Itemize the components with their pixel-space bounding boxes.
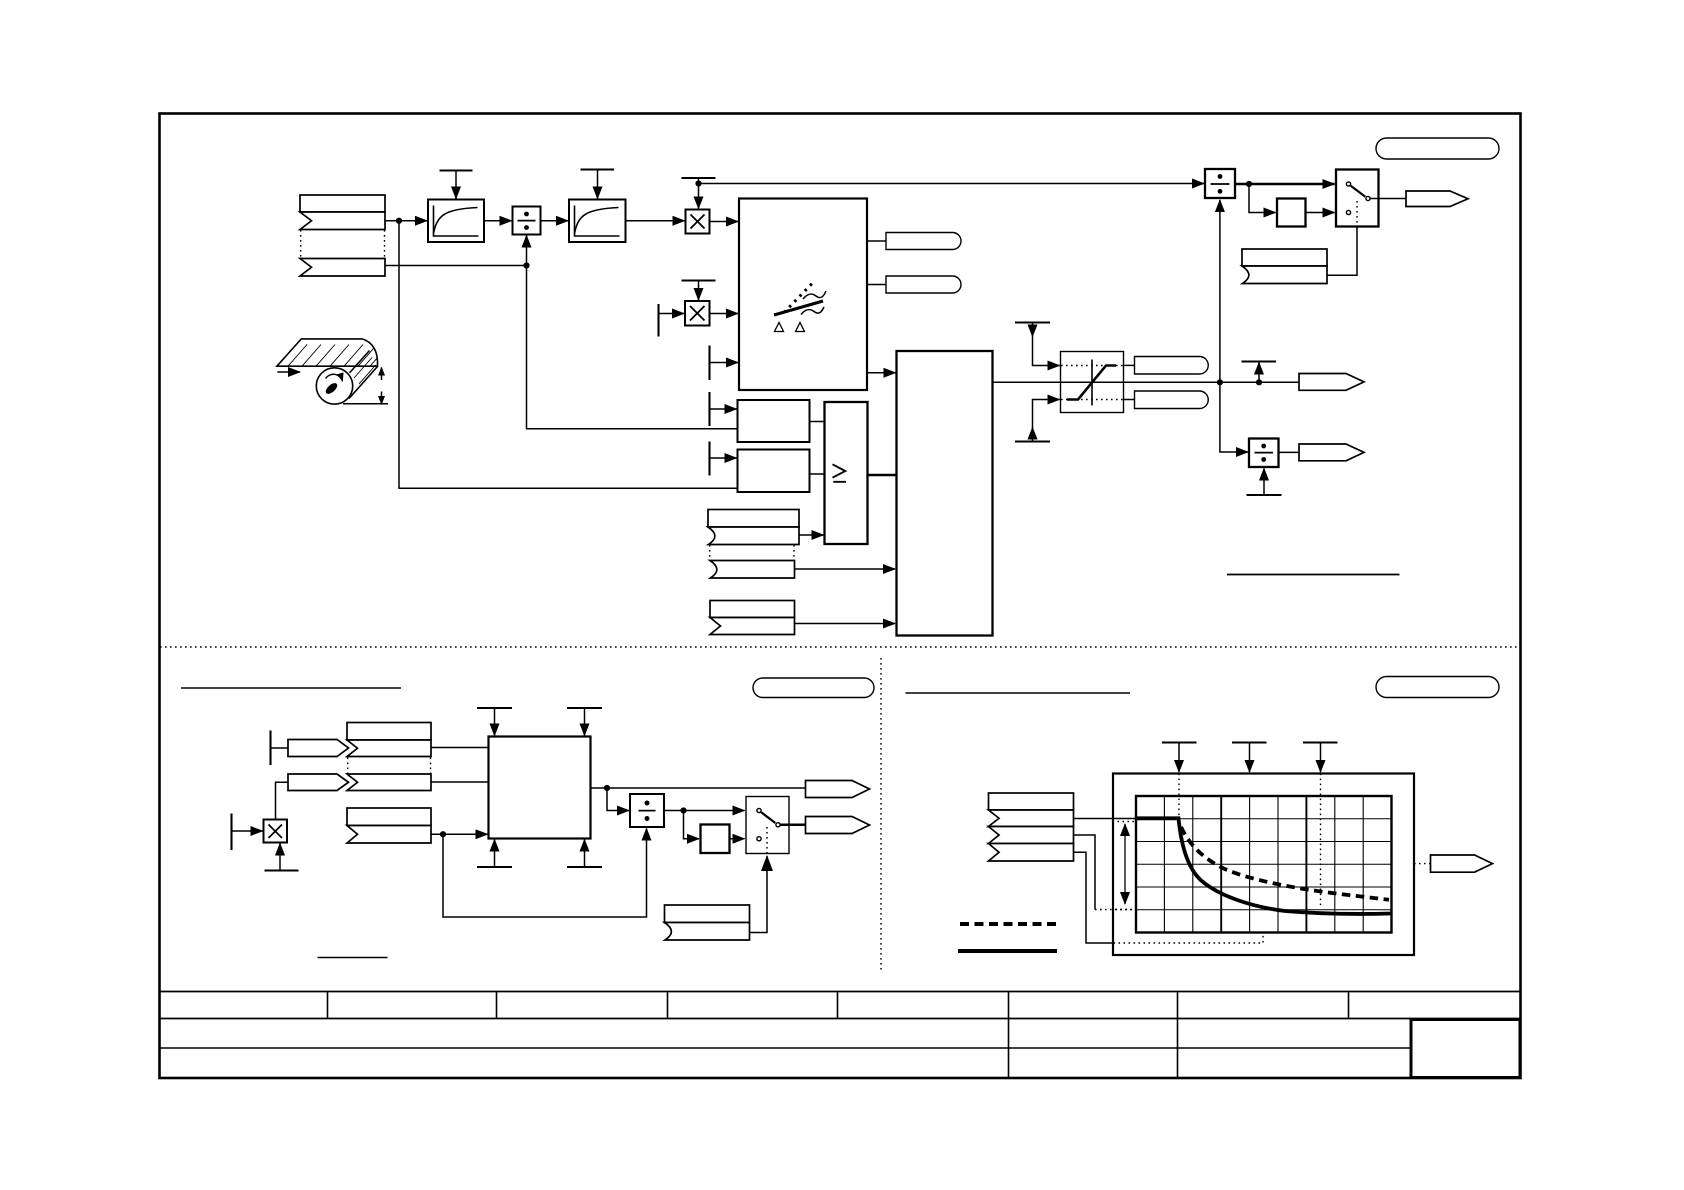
connector K1 dotted continuation [300,230,302,258]
connector C6 curved band [1242,266,1327,284]
title block row2 bottom line [160,1047,1412,1049]
multiplier M3 [264,820,288,843]
roller icon feed arrow [277,371,300,373]
connector C5 top band [710,601,795,618]
wire B1 to pill P1 [867,240,886,242]
output connector Y1 [806,781,870,798]
wire SB2 to S2 [730,838,745,840]
divider D4 [1249,439,1279,468]
tall block B2 [897,351,993,636]
parameter T2 above F2 [581,168,615,170]
wire C5 to B2 [795,623,896,625]
wire D5 to switch S2 [664,810,745,812]
wire GEQ to B2 [868,474,897,476]
connector stack D row2 [989,810,1074,827]
B1 icon solid line [774,301,823,315]
connector C5 zigzag band [710,618,795,635]
node n5 [1217,379,1223,385]
title block heavy box [1411,1020,1520,1078]
roller icon web sheet [277,339,378,366]
output connector X2 [1299,374,1364,391]
wire n4 down to block SB1 [1249,184,1276,213]
wire B1 to tall block B2 [867,372,896,374]
B1 icon curl marks [803,291,826,299]
label line right [1227,574,1400,576]
output pill P4 [1135,391,1209,409]
wire M2 to B1 [710,313,739,315]
output connector Y2 [806,817,870,834]
B1 icon dotted line [784,281,815,313]
title block row1 bottom line [160,1018,1521,1020]
dotted guide lines in graph [1178,774,1180,817]
wire D row2 to graph [1074,818,1137,820]
wire D4 to output X3 [1279,451,1300,453]
parameter bar below D4 [1247,494,1282,496]
pill bottom left section [753,678,874,698]
wire D3 to switch S1 [1235,183,1335,185]
wire S2 to output Y2 [781,824,806,826]
parameter stub into R1 [708,392,710,426]
output connector X1 [1406,191,1468,207]
block SB1 [1277,199,1306,227]
wire D1 to filter F2 [541,220,569,222]
node n9 [680,807,686,813]
connector B3 top band [347,808,431,826]
parameter bars above BB [477,707,512,709]
parameter bar below M3 [265,869,299,871]
dotted link to connector B2 [347,758,349,774]
block R1 [738,400,810,442]
block SB2 [701,825,730,854]
connector B1 top band [347,723,431,741]
switch S1 [1336,170,1379,227]
wire B3 to box BB [431,833,488,835]
connector C4 curved band [710,561,795,579]
connector C7 curved band [665,923,750,941]
graph outer box [1113,774,1414,956]
wire connector C7 to S2 control [750,856,768,933]
wire n8 down to divider D5 [607,788,629,811]
wire F1 to D1 [484,220,512,222]
wire n3 to divider D3 top right [699,183,1205,185]
wire SB1 to switch S1 [1306,212,1335,214]
parameter bar below limiter [1015,440,1050,442]
parameter bar above limiter [1015,321,1050,323]
connector stack D row3 [989,827,1074,844]
limiter L1 [1061,352,1124,413]
characteristic block B1 [739,199,867,391]
node n1 [396,218,402,224]
wire connector C6 to S1 control [1327,227,1357,275]
label underline bottom left [181,687,401,689]
parameter stub left of M3 [230,814,232,851]
roller icon keyway [324,381,339,396]
output connector X3 [1299,444,1364,461]
connector stack D row1 [989,793,1074,810]
divider D1 [513,207,541,235]
output pill P1 [886,233,961,250]
node n8 [604,785,610,791]
connector B1 zigzag band [347,740,431,757]
filter block F1 [428,200,484,243]
section separator dotted vertical [880,658,882,973]
filter block F2 [569,200,626,243]
block BB [489,737,591,839]
wire n7 to divider D5 bottom [443,829,647,918]
wire F2 to multiplier M1 [626,220,685,222]
wire K1 to filter F1 [385,220,427,222]
connector stack D row4 [989,844,1074,862]
wire B2 to limiter L1 [993,381,1061,383]
connector B3 zigzag band [347,826,431,844]
graph dashed curve [1181,827,1389,900]
connector C3 curved band [708,527,799,545]
comparator GEQ block [825,402,868,544]
graph solid curve [1136,818,1391,914]
wire n2 up to divider D1 [526,236,528,266]
wire n1 down to block R2 [399,221,737,489]
switch S2 [746,797,789,854]
wire K2 to node n2 [385,265,527,267]
wire n5 up to D3 [1219,200,1221,382]
r-parameter arrow above n6 [1258,363,1260,383]
wire L1 to pill P4 [1124,399,1135,401]
output pill P2 [886,276,961,293]
parameter stub into R2 [708,442,710,476]
page number pill top right [1376,138,1499,159]
title block row1 separators [328,992,1349,1019]
parameter above M2 [682,279,716,281]
wire R1 to GEQ [810,421,825,423]
connector C7 top band [665,905,750,923]
legend solid line [958,949,1057,953]
wire B2 to box BB [431,781,489,783]
wire C3 to GEQ [799,534,824,536]
connector C4 dotted link [709,545,711,560]
title block top line [160,991,1521,993]
sub label line bottom left [318,957,388,959]
parameter T1 above F1 [440,169,473,171]
connector B2 zigzag band [347,774,431,791]
legend dashed line [960,922,1057,926]
parameter stub into B1 [708,346,710,381]
wire D row4 to graph bottom [1074,852,1114,943]
divider D3 top right [1205,169,1235,198]
parameter stub left of M2 [657,304,659,337]
connector C6 top band [1242,249,1327,266]
wire n9 down to block SB2 [684,811,700,839]
parameter bars above graph [1162,741,1197,743]
pentagon input PI1 [288,740,349,757]
node n6 [1256,379,1262,385]
output pill P3 [1135,357,1209,375]
wire C4 to B2 [795,568,896,570]
output connector Z1 [1431,855,1493,872]
title block lower separators [1009,1019,1178,1078]
graph grid [1136,796,1392,933]
multiplier M1 [686,210,710,234]
input connector K1 band 2 [300,212,385,230]
roller icon cylinder body [349,351,378,399]
section separator dotted horizontal [160,646,1520,648]
divider D5 [630,794,664,827]
binector stub before pentagon PI1 [269,731,271,766]
roller icon dimension arrows [381,368,383,381]
multiplier M2 [685,301,710,326]
node n4 [1246,181,1252,187]
wire D row3 to graph [1074,835,1096,910]
wire BB to output Y1 [591,787,806,789]
wire L1 output to X2 [1124,381,1300,383]
wire R2 to GEQ [810,473,825,475]
connector C3 top band [708,510,799,528]
wire B1 to pill P2 [867,284,886,286]
dimension arrow in graph [1124,824,1126,904]
wire L1 to pill P3 [1124,364,1135,366]
wire S1 to output X1 [1371,198,1407,200]
B1 icon deltas [775,323,805,332]
node n2 [523,262,529,268]
roller icon rotation arrow [326,374,343,381]
wire B1 to box BB [431,747,489,749]
roller icon front circle [316,368,352,404]
parameter bars below BB [477,866,512,868]
node n7 [440,831,446,837]
wire n5 down to divider D4 [1220,382,1248,452]
wire n2 down to block R1 [527,266,738,429]
wire multiplier M3 up to PI2 [276,782,289,819]
block R2 [738,450,810,493]
pill bottom right section [1376,677,1499,698]
pentagon input PI2 [288,774,349,791]
frame border [160,114,1521,1079]
dotted wire to output Z1 [1414,863,1431,865]
node n3 [695,180,701,186]
wire M1 to block B1 [710,221,739,223]
label underline bottom right [906,692,1131,694]
input connector K1 top band [300,195,385,212]
input connector K2 band [300,259,385,277]
parameter above M1 [682,177,716,179]
